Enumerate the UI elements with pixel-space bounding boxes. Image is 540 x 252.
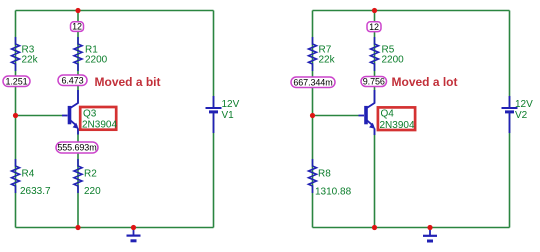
node label 1.251	[3, 76, 30, 87]
wire: bottom rail left circuit	[16, 227, 214, 229]
junction dot base left circuit	[13, 113, 18, 118]
junction dot top right circuit	[372, 8, 377, 13]
svg-text:1310.88: 1310.88	[315, 187, 352, 198]
junction dot ground right circuit	[427, 225, 432, 230]
emitter lead Q4	[374, 129, 376, 136]
wire: middle branch lower (emitter Q4)	[374, 129, 376, 228]
wire: right rail upper (to V1)	[213, 11, 215, 108]
wire: middle branch upper (collector Q4)	[374, 11, 376, 104]
wire: top rail left circuit	[16, 10, 214, 12]
svg-text:Moved a bit: Moved a bit	[95, 75, 161, 89]
svg-text:6.473: 6.473	[61, 76, 83, 86]
resistor R3	[12, 37, 20, 71]
wire: right rail lower (from V2)	[509, 112, 511, 227]
svg-text:R2: R2	[84, 169, 97, 180]
wire: base wire left circuit	[16, 115, 63, 117]
node label 667.344m	[291, 77, 335, 88]
ground right circuit	[423, 228, 437, 242]
wire: top rail right circuit	[313, 10, 510, 12]
node label 555.693m	[56, 142, 98, 153]
svg-text:Q3: Q3	[83, 108, 97, 119]
junction dot ground left circuit	[131, 225, 136, 230]
resistor R2	[74, 159, 82, 193]
red highlight box Q3	[80, 107, 116, 130]
svg-text:555.693m: 555.693m	[57, 143, 96, 153]
transistor Q4 (NPN 2N3904)	[359, 90, 375, 126]
emitter arrowhead Q4	[369, 123, 375, 129]
svg-text:Moved a lot: Moved a lot	[392, 75, 458, 89]
wire: bottom rail right circuit	[313, 227, 510, 229]
transistor Q3 (NPN 2N3904)	[62, 90, 78, 126]
svg-text:220: 220	[84, 186, 101, 197]
svg-text:2N3904: 2N3904	[380, 120, 415, 131]
resistor R5	[371, 37, 379, 71]
junction dot top left circuit	[75, 8, 80, 13]
junction dot emitter-bottom right circuit	[372, 225, 377, 230]
svg-text:2200: 2200	[382, 55, 405, 66]
resistor R1	[74, 37, 82, 71]
wire: left rail right circuit	[312, 11, 314, 228]
svg-text:12V: 12V	[222, 99, 240, 110]
emitter arrowhead Q3	[73, 123, 79, 129]
svg-text:667.344m: 667.344m	[293, 77, 332, 87]
svg-text:2200: 2200	[85, 55, 108, 66]
junction dot emitter-bottom left circuit	[75, 225, 80, 230]
resistor R8	[309, 159, 317, 193]
svg-text:22k: 22k	[22, 55, 39, 66]
resistor R7	[309, 37, 317, 71]
svg-text:V1: V1	[222, 110, 235, 121]
svg-text:Q4: Q4	[381, 109, 395, 120]
svg-text:9.756: 9.756	[363, 77, 385, 87]
battery V2	[502, 96, 518, 133]
svg-text:V2: V2	[515, 110, 528, 121]
junction dot base right circuit	[310, 113, 315, 118]
resistor R4	[12, 159, 20, 193]
svg-text:12: 12	[369, 22, 379, 32]
red highlight box Q4	[378, 107, 415, 130]
node label 12 (left)	[71, 22, 84, 32]
battery V1	[206, 96, 222, 133]
svg-text:12V: 12V	[515, 99, 533, 110]
wire: middle branch lower (emitter)	[77, 129, 79, 228]
node label 12 (right)	[367, 22, 381, 32]
svg-text:R4: R4	[22, 169, 35, 180]
node label 6.473	[58, 75, 87, 86]
svg-text:22k: 22k	[319, 55, 336, 66]
svg-text:12: 12	[72, 22, 82, 32]
wire: right rail lower (from V1)	[213, 112, 215, 227]
ground left circuit	[127, 228, 141, 241]
wire: left rail left circuit	[15, 11, 17, 228]
svg-text:2N3904: 2N3904	[82, 120, 117, 131]
svg-text:2633.7: 2633.7	[20, 186, 51, 197]
emitter lead Q3	[77, 129, 79, 135]
svg-text:1.251: 1.251	[5, 77, 27, 87]
wire: right rail upper (to V2)	[509, 11, 511, 108]
node label 9.756	[361, 77, 387, 87]
wire: base wire right circuit	[313, 115, 359, 117]
svg-text:R8: R8	[318, 169, 331, 180]
wire: middle branch upper (collector)	[77, 11, 79, 104]
